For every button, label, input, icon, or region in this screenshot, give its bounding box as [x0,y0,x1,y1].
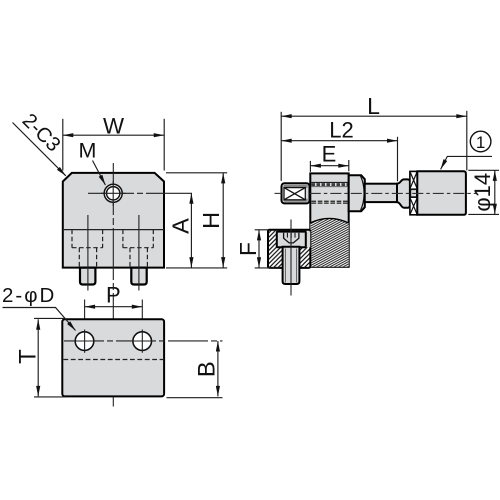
svg-text:T: T [14,349,41,364]
svg-text:W: W [103,113,124,138]
through hole left [75,332,94,351]
svg-text:M: M [79,139,97,163]
dimension W [63,119,164,171]
dimension F [255,230,280,268]
bottom view hole centerline horizontal [64,340,223,342]
through hole right [133,332,152,351]
bolt stud left [80,268,95,285]
dimension T [34,318,66,397]
bottom view plate body [62,319,164,396]
hidden counterbore hole right [123,230,153,267]
svg-text:L2: L2 [329,117,353,142]
clamp screw centerline [290,220,292,296]
svg-text:L: L [367,93,380,119]
section hatch dome in plate [310,218,348,266]
bottom view dashed line [63,359,163,361]
svg-text:φ14: φ14 [470,173,495,212]
bearing band [410,171,417,214]
svg-text:B: B [194,361,221,377]
svg-text:E: E [322,142,337,167]
clamp screw head [277,232,306,248]
clamp block section [268,230,310,268]
leader 2-C3 [13,123,66,176]
hidden thread lines in plate [311,181,348,183]
tapped hole M [104,184,122,202]
clamp screw shank [283,247,300,284]
hole horizontal centerline front view [88,192,194,194]
dimension L [281,111,467,181]
dimension phi14 [468,170,499,214]
svg-text:A: A [168,218,194,234]
main vertical centerline [112,163,114,407]
side view axis centerline [275,192,282,194]
dimension A [190,193,192,267]
cylinder body [417,171,466,215]
dimension P [85,300,143,370]
svg-text:H: H [198,212,224,229]
balloon leader [441,156,492,169]
dimension B [167,341,223,398]
svg-text:2-φD: 2-φD [2,284,56,307]
front view block body [63,173,164,268]
dimension H [166,173,227,268]
svg-text:F: F [235,242,261,256]
front view step divider line [63,229,164,231]
svg-text:P: P [106,283,121,308]
dimension E [310,160,348,172]
shaft [365,184,397,202]
svg-text:1: 1 [476,133,485,152]
screw head recess strip [305,231,311,247]
hidden counterbore hole left [72,230,103,267]
holder plate body [310,173,348,266]
hex boss [349,175,365,211]
leader M [93,161,106,186]
bolt stud right [131,268,146,285]
pilot pin crosshatch box [282,183,310,203]
dimension L2 [281,137,397,182]
balloon 1 [470,131,491,152]
bolt centerline left [87,215,89,291]
flange [397,179,410,207]
leader 2-phiD [3,308,76,331]
hole crosshairs bottom view [73,340,96,342]
bolt centerline right [138,215,140,291]
